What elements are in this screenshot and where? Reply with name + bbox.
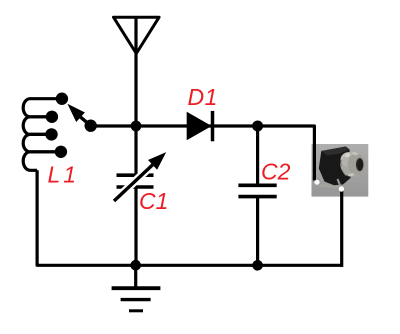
node junction: antenna/top bbox=[131, 121, 142, 132]
ground bbox=[112, 265, 161, 311]
node junction: C2 bottom bbox=[252, 260, 263, 271]
earphone body bbox=[319, 147, 351, 189]
svg-text:C1: C1 bbox=[139, 188, 168, 214]
svg-text:C2: C2 bbox=[261, 159, 291, 185]
earphone metal nozzle bbox=[340, 151, 365, 177]
earphone photo background bbox=[312, 144, 369, 197]
capacitor C2 bbox=[238, 126, 276, 265]
coil tap dots bbox=[45, 93, 68, 159]
wiper arrow and pivot bbox=[67, 104, 97, 132]
inductor L1 coil turns bbox=[23, 99, 62, 171]
svg-text:D1: D1 bbox=[188, 84, 218, 110]
diode D1 bbox=[187, 111, 213, 141]
earphone lead wires (gray) bbox=[317, 179, 341, 189]
earphone terminal dots bbox=[314, 180, 344, 192]
wire: top rail from wiper pivot to right corner, down to earphone bbox=[91, 126, 315, 181]
capacitor C1 (variable) bbox=[114, 126, 166, 265]
antenna bbox=[114, 17, 160, 53]
node junction: ground/C1 bottom bbox=[130, 260, 141, 271]
wire: left rail and bottom rail bbox=[37, 170, 343, 265]
node junction: C2 top bbox=[252, 121, 263, 132]
wire: earphone return wire bbox=[340, 189, 343, 267]
wire: antenna feed line bbox=[134, 17, 137, 126]
svg-text:L1: L1 bbox=[48, 162, 80, 188]
